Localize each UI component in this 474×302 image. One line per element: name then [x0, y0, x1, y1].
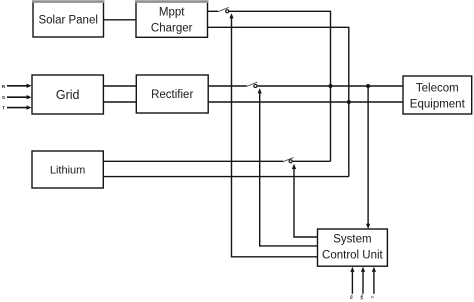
- block Mppt Charger: [135, 2, 209, 38]
- wire bus sense line into SCU top with arrow: [366, 86, 370, 229]
- wire control line to S1 from SCU: [229, 13, 317, 257]
- svg-text:Telecom: Telecom: [416, 82, 459, 94]
- block Telecom Equipment: [403, 76, 472, 114]
- wire lithium bottom output: [103, 176, 348, 178]
- svg-text:Grid: Grid: [56, 88, 80, 102]
- wire control line to S3 from SCU: [292, 164, 318, 237]
- wire grid to rectifier top: [103, 85, 136, 87]
- block Rectifier: [136, 75, 208, 113]
- svg-text:Mppt: Mppt: [159, 6, 185, 18]
- svg-text:Solar Panel: Solar Panel: [38, 15, 97, 27]
- switch S2 rectifier output: [247, 82, 258, 87]
- block Solar Panel: [32, 2, 104, 38]
- wire rectifier top output to switch: [208, 85, 247, 87]
- wire mppt switch to DC bus corner: [229, 11, 331, 161]
- svg-text:Equipment: Equipment: [410, 98, 466, 110]
- switch S1 mppt output: [218, 7, 229, 12]
- wire grid input T with arrow: [2, 105, 31, 111]
- wire SCU bottom sensor input 2: [361, 267, 365, 294]
- wire lithium switch to DC bus: [292, 160, 330, 162]
- wire mppt bottom output: [208, 27, 349, 176]
- wire grid to rectifier bottom: [103, 101, 136, 103]
- svg-text:Ib: Ib: [348, 295, 353, 299]
- block Grid: [32, 75, 103, 114]
- svg-text:Charger: Charger: [151, 22, 193, 34]
- svg-text:Rectifier: Rectifier: [151, 89, 193, 101]
- wire SCU bottom sensor input 3: [372, 267, 376, 294]
- svg-text:Control Unit: Control Unit: [322, 250, 384, 262]
- wire grid input S with arrow: [2, 95, 32, 101]
- svg-text:Vb: Vb: [359, 294, 364, 300]
- wire rectifier bottom output to telecom equipment: [208, 101, 403, 103]
- wire SCU bottom sensor input 1: [350, 267, 354, 294]
- wire lithium top output to switch: [103, 160, 283, 162]
- wire solar panel to mppt charger: [104, 19, 137, 21]
- switch S3 lithium output: [283, 157, 294, 162]
- block System Control Unit: [318, 229, 388, 266]
- wire mppt top output to switch: [208, 10, 219, 12]
- junction dot bus bottom at V2: [347, 100, 351, 104]
- wire control line to S2 from SCU: [258, 88, 318, 246]
- svg-text:T: T: [2, 106, 5, 112]
- block Lithium: [32, 151, 103, 188]
- junction dot bus top at SCU feed: [366, 84, 370, 88]
- svg-text:R: R: [2, 84, 6, 90]
- junction dot bus top at V1: [329, 84, 333, 88]
- wire grid input R with arrow: [2, 84, 32, 90]
- svg-text:Lithium: Lithium: [50, 164, 85, 176]
- wire DC bus top to telecom equipment: [257, 85, 403, 87]
- svg-text:System: System: [333, 233, 371, 245]
